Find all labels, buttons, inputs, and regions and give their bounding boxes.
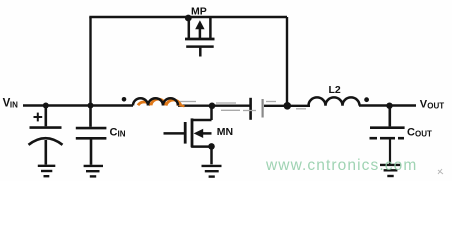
svg-text:C: C [110,126,118,138]
artifact small gray mark bottom right [438,169,443,174]
node VOUT junction at COUT [386,103,392,109]
svg-text:C: C [407,126,415,138]
node SW2 junction top-branch meets rail [284,102,292,110]
capacitor flying C right plate (faded) [262,99,264,118]
wire top rail drop to node SW2 [286,17,288,106]
capacitor input electrolytic [29,106,63,165]
wire VIN riser to top rail [89,17,91,106]
svg-text:L2: L2 [329,84,341,96]
transistor MN (NMOS) [164,106,212,165]
node MN source body dot [208,143,215,150]
wire flying cap right plate to node SW2 [264,105,310,107]
inductor L1 [133,98,185,106]
svg-text:IN: IN [10,100,18,109]
svg-text:MP: MP [191,6,207,18]
label COUT [407,126,432,138]
ground MN [202,166,222,177]
wire L1 to MN drain node [178,104,250,106]
svg-text:IN: IN [118,130,126,139]
inductor L2 [309,97,360,105]
wire top rail left segment [89,16,287,18]
wire main rail VIN to L1 [23,104,133,106]
svg-text:MN: MN [217,126,233,138]
node L2 phase dot [364,97,369,102]
node L1 phase dot [122,97,127,102]
wire noise artifacts around SW nodes [180,102,306,111]
ground COUT [380,165,400,176]
ground input electrolytic [38,166,56,176]
node SW1 junction at MN drain [209,103,216,110]
node VIN junction at input cap [43,103,49,109]
label CIN [110,126,126,138]
capacitor input electrolytic plus sign [34,113,43,122]
node MP drain dot on top rail [185,15,192,22]
transistor MP (PMOS, gate below) [185,18,215,57]
ground CIN [84,166,103,177]
inductor L1 orange highlight arcs [138,99,185,106]
capacitor flying C left plate [249,98,252,120]
label VOUT [420,99,445,111]
svg-text:www.cntronics.com: www.cntronics.com [265,157,417,174]
inductor L1 black arcs [133,98,148,105]
node VIN junction at CIN riser [88,103,94,109]
wire L2 to VOUT [359,104,416,106]
svg-text:OUT: OUT [427,101,444,110]
capacitor COUT [370,106,405,165]
capacitor CIN [76,106,107,165]
svg-text:OUT: OUT [415,129,432,138]
label VIN [3,98,19,110]
